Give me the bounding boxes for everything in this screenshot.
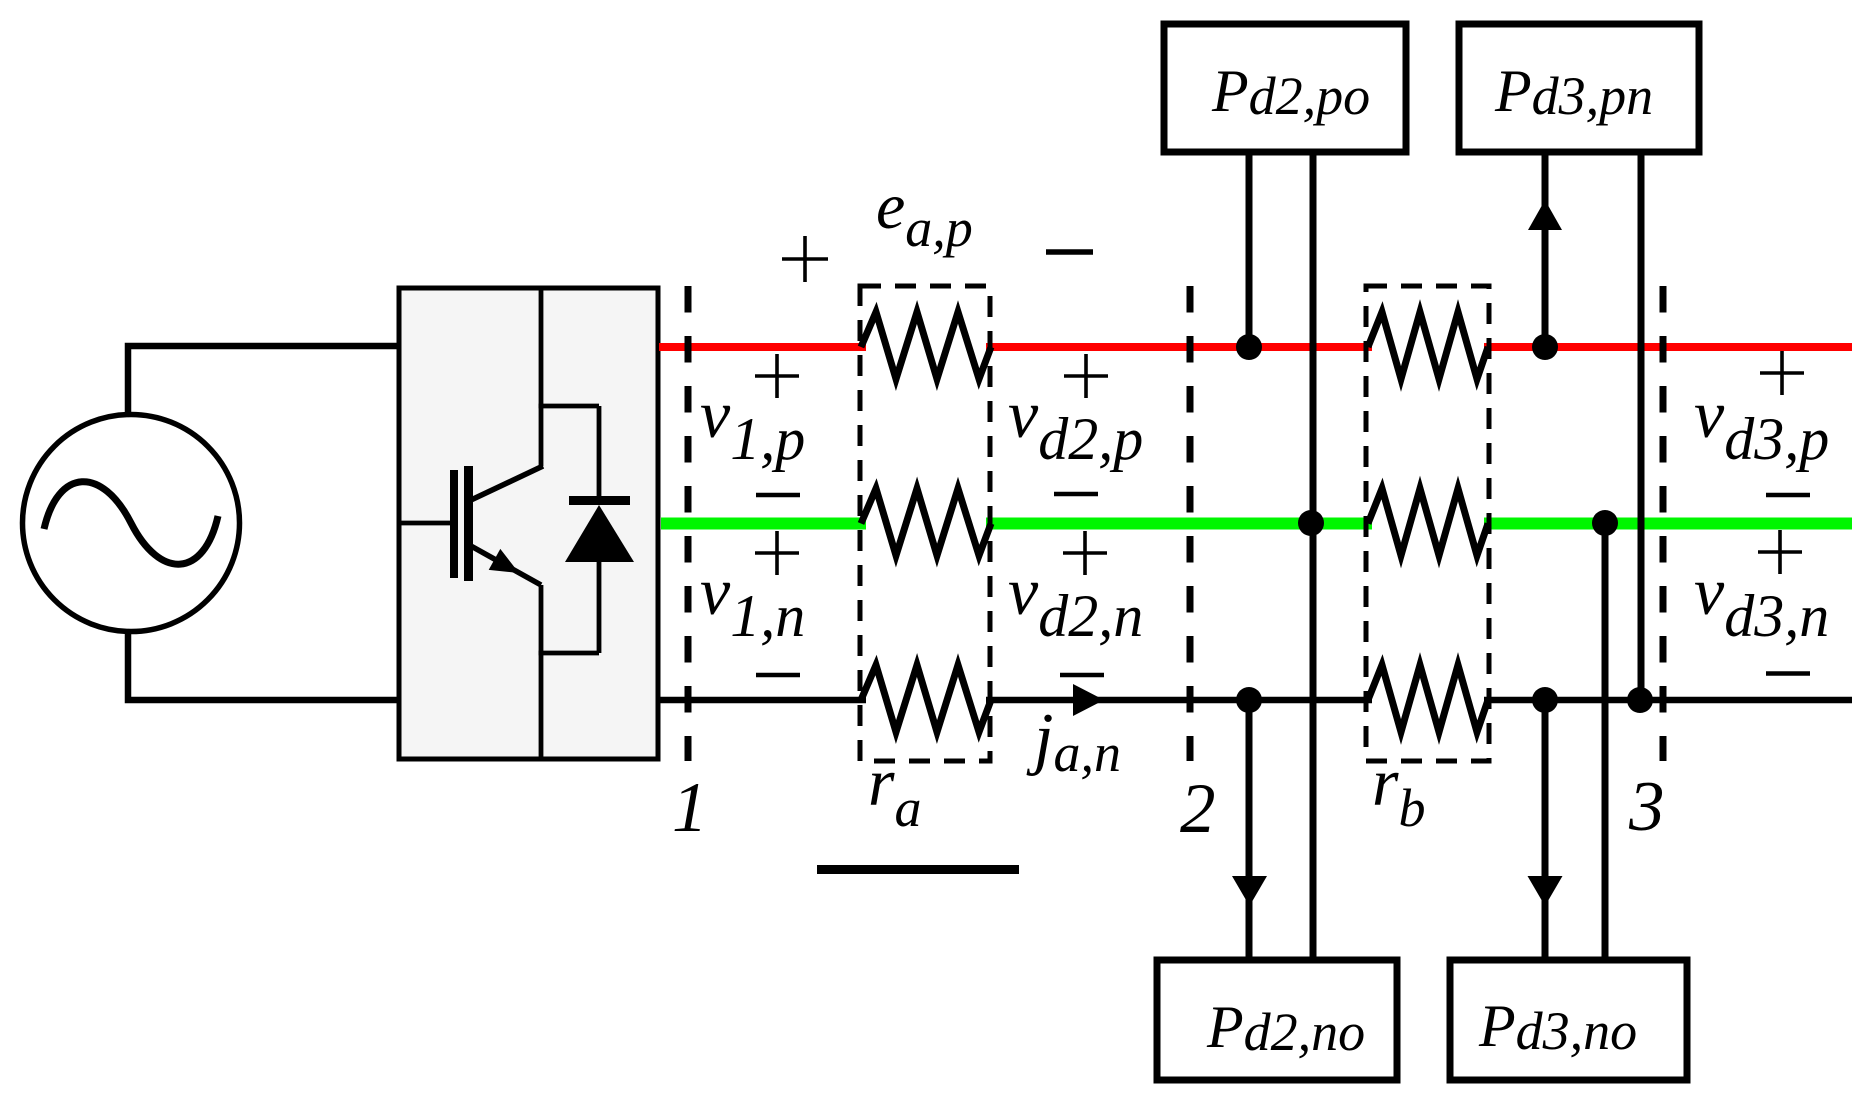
node dot red-right: [1532, 334, 1558, 360]
wire p-line (red) segment 2: [986, 343, 1372, 351]
diode D1 bottom lead: [597, 562, 602, 653]
resistor r_a (p-line): [861, 312, 991, 379]
IGBT Q1 emitter arrow: [489, 549, 519, 573]
resistor r_b (n-line): [1368, 665, 1488, 732]
wire: P_d3,no left lead: [1542, 700, 1549, 960]
wire: source top to converter: [128, 346, 399, 416]
plus of v_d2,p: [1064, 354, 1108, 398]
svg-text:ra: ra: [868, 744, 921, 838]
wire: bottom bridge: [539, 651, 600, 656]
arrow down into P_d3,no: [1528, 876, 1563, 906]
wire n-line (black) segment 1: [659, 697, 866, 704]
wire: top bridge to diode branch: [539, 404, 600, 409]
minus of v_d2,p: [1054, 492, 1098, 497]
resistor r_b (p-line): [1368, 312, 1488, 379]
plus of v_1,p: [755, 354, 799, 398]
wire: P_d2,po left lead: [1246, 152, 1253, 347]
arrow j_a,n on n-line: [1073, 684, 1104, 716]
resistor r_b (o-line): [1368, 489, 1488, 556]
node 2 dashed boundary: [1187, 286, 1194, 761]
AC source Vs: [23, 415, 240, 632]
node dot green-left: [1298, 510, 1324, 536]
IGBT Q1 emitter diagonal: [471, 546, 541, 585]
svg-text:Pd3,no: Pd3,no: [1478, 993, 1637, 1061]
wire o-line (green) segment 2: [986, 518, 1372, 530]
diode D1 cathode bar: [569, 496, 630, 505]
wire: P_d2,no left lead: [1246, 700, 1253, 960]
svg-text:3: 3: [1628, 768, 1665, 846]
wire: P_d3,pn left lead: [1542, 152, 1549, 347]
underline bar below r_a: [817, 865, 1019, 874]
resistor r_a (n-line): [861, 665, 991, 732]
node dot red-left: [1236, 334, 1262, 360]
svg-text:vd2,n: vd2,n: [1008, 553, 1143, 649]
plus of e_a,p: [782, 236, 828, 282]
node dot green-right: [1592, 510, 1618, 536]
svg-text:2: 2: [1180, 770, 1216, 848]
node dot black-left: [1236, 687, 1262, 713]
svg-text:ea,p: ea,p: [876, 170, 973, 258]
plus of v_d3,p: [1760, 351, 1804, 395]
svg-text:Pd2,po: Pd2,po: [1211, 58, 1370, 126]
svg-text:1: 1: [672, 769, 708, 847]
resistor r_a (o-line): [861, 489, 991, 556]
wire: source bottom to converter: [128, 630, 399, 700]
P_d2,no box: [1157, 960, 1397, 1080]
svg-text:Pd3,pn: Pd3,pn: [1494, 58, 1653, 126]
P_d2,po box: [1164, 24, 1406, 152]
svg-text:vd3,n: vd3,n: [1694, 553, 1829, 649]
plus of v_d2,n: [1063, 531, 1107, 575]
wire o-line (green) segment 3: [1484, 518, 1852, 530]
wire p-line (red) segment 1: [659, 343, 866, 351]
svg-text:vd3,p: vd3,p: [1694, 376, 1829, 472]
diode D1 triangle: [565, 505, 634, 562]
wire: P_d2,po/P_d2,no right lead: [1310, 152, 1317, 960]
P_d3,no box: [1450, 960, 1687, 1080]
plus of v_1,n: [755, 531, 799, 575]
minus of e_a,p: [1046, 249, 1093, 255]
P_d3,pn box: [1459, 24, 1699, 152]
minus of v_d2,n: [1060, 673, 1104, 678]
node 1 dashed boundary: [685, 286, 692, 761]
minus of v_1,n: [756, 673, 800, 678]
node dot black-mid: [1532, 687, 1558, 713]
IGBT Q1 gate lead: [399, 521, 452, 526]
IGBT Q1 gate bar: [450, 470, 458, 578]
wire n-line (black) segment 3: [1484, 697, 1852, 704]
IGBT Q1 body bar: [464, 466, 473, 581]
minus of v_d3,p: [1766, 493, 1810, 498]
IGBT Q1 collector diagonal: [471, 466, 543, 500]
arrow down into P_d2,no: [1232, 876, 1267, 906]
wire p-line (red) segment 3: [1484, 343, 1852, 351]
wire n-line (black) segment 2: [986, 697, 1372, 704]
svg-text:vd2,p: vd2,p: [1008, 376, 1143, 472]
converter block U1: [399, 288, 658, 759]
node dot black-right: [1627, 687, 1653, 713]
svg-text:v1,n: v1,n: [700, 553, 805, 649]
plus of v_d3,n: [1758, 530, 1802, 574]
resistor r_b dashed box: [1366, 286, 1489, 761]
wire o-line (green) segment 1: [661, 518, 866, 530]
minus of v_1,p: [756, 493, 800, 498]
svg-text:v1,p: v1,p: [700, 376, 805, 472]
resistor r_a dashed box: [860, 286, 990, 761]
diode D1 top lead: [597, 406, 602, 500]
wire: P_d3,pn right lead: [1638, 152, 1645, 700]
wire: collector rail: [539, 288, 544, 466]
svg-text:rb: rb: [1372, 744, 1425, 838]
svg-text:Pd2,no: Pd2,no: [1206, 994, 1365, 1062]
wire: P_d3,no right lead: [1602, 523, 1609, 960]
node 3 dashed boundary: [1660, 286, 1667, 761]
minus of v_d3,n: [1766, 671, 1810, 676]
arrow up into P_d3,pn: [1528, 200, 1562, 230]
wire: emitter rail: [539, 585, 544, 759]
